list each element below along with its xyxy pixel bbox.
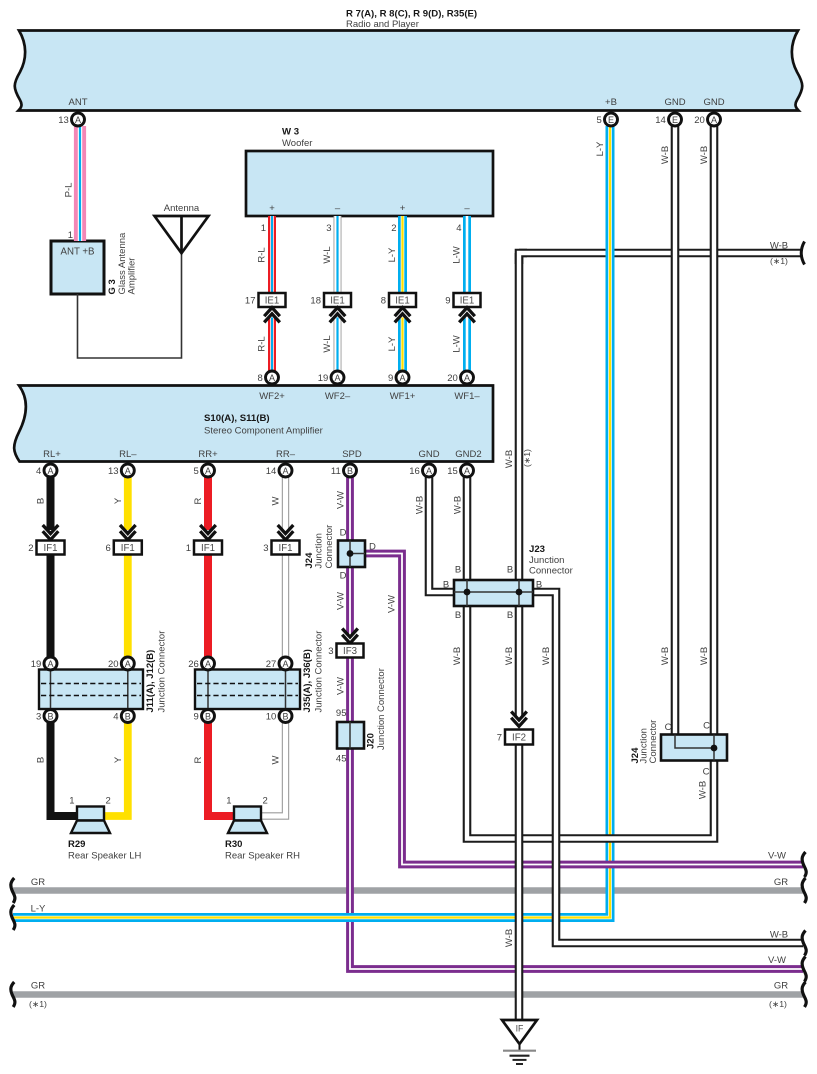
svg-text:IE1: IE1 [460, 295, 475, 306]
svg-text:20: 20 [108, 659, 119, 670]
svg-text:GR: GR [31, 981, 45, 992]
svg-text:Y: Y [113, 497, 124, 504]
svg-text:B: B [205, 711, 211, 721]
svg-text:ANT +B: ANT +B [60, 247, 94, 258]
svg-text:J11(A), J12(B): J11(A), J12(B) [145, 650, 156, 713]
svg-text:W-B: W-B [453, 496, 464, 514]
svg-text:E: E [672, 115, 678, 125]
svg-text:B: B [36, 757, 47, 763]
svg-text:V-W: V-W [336, 677, 347, 695]
svg-text:26: 26 [188, 659, 199, 670]
svg-text:15: 15 [447, 466, 458, 477]
svg-text:A: A [426, 466, 432, 476]
svg-text:–: – [335, 203, 341, 214]
svg-text:95: 95 [336, 708, 347, 719]
svg-text:W-B: W-B [415, 496, 426, 514]
svg-text:RL–: RL– [119, 449, 137, 460]
svg-text:+B: +B [605, 97, 617, 108]
svg-text:R 7(A), R 8(C), R 9(D), R35(E): R 7(A), R 8(C), R 9(D), R35(E) [346, 9, 477, 20]
svg-text:7: 7 [497, 733, 502, 744]
svg-text:1: 1 [186, 543, 191, 554]
svg-text:S10(A), S11(B): S10(A), S11(B) [204, 413, 270, 424]
svg-text:Junction: Junction [314, 533, 325, 568]
svg-text:A: A [47, 659, 53, 669]
svg-text:A: A [711, 115, 717, 125]
svg-text:WF2–: WF2– [325, 391, 351, 402]
svg-text:IF2: IF2 [512, 732, 526, 743]
svg-text:3: 3 [328, 646, 333, 657]
svg-text:W-L: W-L [322, 335, 333, 352]
svg-text:(∗1): (∗1) [770, 256, 788, 266]
svg-text:A: A [282, 659, 288, 669]
svg-text:18: 18 [310, 296, 321, 307]
svg-text:Connector: Connector [648, 720, 659, 764]
svg-text:Junction Connector: Junction Connector [156, 631, 167, 713]
svg-text:L-Y: L-Y [387, 247, 398, 262]
svg-text:W-B: W-B [699, 146, 710, 164]
svg-text:GND2: GND2 [455, 449, 481, 460]
svg-text:20: 20 [447, 373, 458, 384]
svg-text:W-B: W-B [541, 647, 552, 665]
svg-text:13: 13 [108, 466, 119, 477]
svg-text:IF1: IF1 [201, 543, 215, 554]
svg-text:GND: GND [418, 449, 439, 460]
svg-text:RL+: RL+ [43, 449, 61, 460]
svg-text:C: C [665, 722, 672, 733]
svg-text:W-B: W-B [699, 647, 710, 665]
svg-text:45: 45 [336, 754, 347, 765]
svg-text:W-B: W-B [770, 241, 788, 252]
svg-text:WF1+: WF1+ [390, 391, 416, 402]
svg-text:ANT: ANT [69, 97, 88, 108]
svg-text:(∗1): (∗1) [29, 999, 47, 1009]
svg-text:B: B [455, 565, 461, 576]
svg-text:B: B [536, 580, 542, 591]
svg-text:V-W: V-W [336, 491, 347, 509]
svg-text:D: D [340, 571, 347, 582]
svg-text:W: W [271, 755, 282, 764]
svg-text:A: A [269, 373, 275, 383]
svg-text:IF1: IF1 [121, 543, 135, 554]
svg-text:Connector: Connector [324, 525, 335, 569]
svg-text:A: A [125, 659, 131, 669]
svg-text:GR: GR [774, 981, 788, 992]
svg-text:B: B [347, 466, 353, 476]
svg-text:R: R [193, 756, 204, 763]
svg-text:W 3: W 3 [282, 127, 299, 138]
svg-text:2: 2 [263, 796, 268, 807]
svg-text:+: + [269, 203, 275, 214]
svg-text:W-B: W-B [452, 647, 463, 665]
svg-text:5: 5 [597, 115, 602, 126]
svg-text:Junction: Junction [529, 555, 564, 566]
svg-text:A: A [205, 659, 211, 669]
svg-text:V-W: V-W [336, 592, 347, 610]
svg-text:B: B [125, 711, 131, 721]
svg-text:+: + [400, 203, 406, 214]
svg-text:Radio and Player: Radio and Player [346, 19, 419, 30]
svg-text:9: 9 [445, 296, 450, 307]
svg-text:J35(A), J36(B): J35(A), J36(B) [302, 649, 313, 712]
svg-text:IF1: IF1 [44, 543, 58, 554]
svg-text:1: 1 [68, 230, 73, 241]
svg-text:17: 17 [245, 296, 256, 307]
svg-text:W-B: W-B [770, 930, 788, 941]
svg-text:C: C [703, 767, 710, 778]
svg-text:D: D [369, 542, 376, 553]
svg-text:(∗1): (∗1) [769, 999, 787, 1009]
svg-text:IE1: IE1 [330, 295, 345, 306]
svg-text:E: E [608, 115, 614, 125]
svg-text:Y: Y [113, 756, 124, 763]
svg-text:IF3: IF3 [343, 646, 357, 657]
svg-text:C: C [703, 721, 710, 732]
svg-text:1: 1 [69, 796, 74, 807]
svg-text:4: 4 [36, 466, 41, 477]
svg-text:IE1: IE1 [395, 295, 410, 306]
svg-text:B: B [507, 610, 513, 621]
svg-text:L-Y: L-Y [31, 904, 46, 915]
svg-text:W-B: W-B [660, 647, 671, 665]
svg-text:GR: GR [31, 877, 45, 888]
svg-text:Connector: Connector [529, 566, 573, 577]
svg-text:L-W: L-W [452, 246, 463, 263]
svg-text:J23: J23 [529, 544, 545, 555]
svg-text:–: – [464, 203, 470, 214]
svg-text:A: A [205, 466, 211, 476]
svg-text:B: B [507, 565, 513, 576]
svg-text:W-B: W-B [504, 929, 515, 947]
svg-text:A: A [47, 466, 53, 476]
svg-text:A: A [399, 373, 405, 383]
svg-text:P-L: P-L [64, 183, 75, 198]
svg-text:3: 3 [326, 223, 331, 234]
svg-text:Rear Speaker LH: Rear Speaker LH [68, 851, 142, 862]
svg-text:A: A [282, 466, 288, 476]
svg-text:8: 8 [258, 373, 263, 384]
svg-text:SPD: SPD [342, 449, 362, 460]
svg-text:R29: R29 [68, 839, 85, 850]
svg-text:16: 16 [409, 466, 420, 477]
svg-text:19: 19 [31, 659, 42, 670]
svg-text:WF2+: WF2+ [259, 391, 285, 402]
svg-text:L-W: L-W [452, 335, 463, 352]
svg-text:R: R [193, 497, 204, 504]
svg-text:2: 2 [391, 223, 396, 234]
svg-text:6: 6 [106, 543, 111, 554]
svg-text:V-W: V-W [768, 955, 786, 966]
svg-text:14: 14 [266, 466, 277, 477]
svg-text:14: 14 [655, 115, 666, 126]
svg-text:B: B [47, 711, 53, 721]
svg-text:D: D [340, 528, 347, 539]
svg-text:Woofer: Woofer [282, 138, 312, 149]
svg-text:W-L: W-L [322, 246, 333, 263]
svg-text:IE1: IE1 [265, 295, 280, 306]
svg-text:W-B: W-B [698, 781, 709, 799]
svg-text:B: B [36, 498, 47, 504]
svg-text:V-W: V-W [768, 851, 786, 862]
svg-text:J20: J20 [366, 733, 377, 749]
svg-text:8: 8 [381, 296, 386, 307]
svg-text:4: 4 [113, 712, 118, 723]
svg-text:A: A [464, 373, 470, 383]
svg-text:1: 1 [261, 223, 266, 234]
svg-text:1: 1 [226, 796, 231, 807]
svg-text:L-Y: L-Y [387, 336, 398, 351]
svg-text:A: A [334, 373, 340, 383]
svg-text:(∗1): (∗1) [522, 449, 532, 467]
svg-text:GND: GND [703, 97, 724, 108]
svg-text:GND: GND [664, 97, 685, 108]
svg-text:W-B: W-B [660, 146, 671, 164]
svg-text:20: 20 [694, 115, 705, 126]
svg-text:WF1–: WF1– [454, 391, 480, 402]
svg-text:27: 27 [266, 659, 277, 670]
svg-text:V-W: V-W [387, 595, 398, 613]
svg-text:13: 13 [58, 115, 69, 126]
svg-text:A: A [125, 466, 131, 476]
svg-text:A: A [464, 466, 470, 476]
svg-text:Rear Speaker RH: Rear Speaker RH [225, 851, 300, 862]
svg-text:RR+: RR+ [198, 449, 218, 460]
svg-text:2: 2 [28, 543, 33, 554]
svg-text:19: 19 [318, 373, 329, 384]
svg-text:9: 9 [194, 712, 199, 723]
svg-text:B: B [443, 580, 449, 591]
svg-text:GR: GR [774, 877, 788, 888]
svg-text:3: 3 [36, 712, 41, 723]
svg-text:IF1: IF1 [279, 543, 293, 554]
svg-text:L-Y: L-Y [595, 141, 606, 156]
svg-text:4: 4 [456, 223, 461, 234]
svg-text:3: 3 [263, 543, 268, 554]
svg-text:B: B [282, 711, 288, 721]
svg-text:A: A [75, 115, 81, 125]
svg-text:Amplifier: Amplifier [127, 258, 138, 295]
svg-text:10: 10 [266, 712, 277, 723]
svg-text:IF: IF [516, 1024, 524, 1034]
svg-text:W-B: W-B [504, 450, 515, 468]
svg-text:9: 9 [388, 373, 393, 384]
svg-text:R-L: R-L [257, 336, 268, 351]
svg-text:Antenna: Antenna [164, 203, 200, 214]
svg-text:Junction Connector: Junction Connector [376, 668, 387, 750]
svg-text:W-B: W-B [504, 647, 515, 665]
svg-text:11: 11 [331, 466, 341, 477]
svg-text:R30: R30 [225, 839, 242, 850]
svg-text:R-L: R-L [257, 247, 268, 262]
svg-text:5: 5 [194, 466, 199, 477]
svg-text:Junction Connector: Junction Connector [313, 631, 324, 713]
svg-text:RR–: RR– [276, 449, 296, 460]
svg-text:B: B [455, 610, 461, 621]
svg-text:W: W [271, 496, 282, 505]
svg-text:2: 2 [106, 796, 111, 807]
svg-text:Stereo Component Amplifier: Stereo Component Amplifier [204, 426, 323, 437]
